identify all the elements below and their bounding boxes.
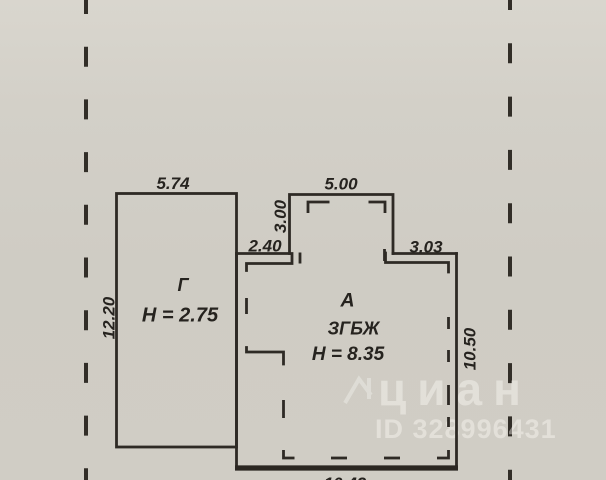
svg-text:10.50: 10.50	[461, 327, 480, 370]
svg-text:12.20: 12.20	[100, 296, 119, 339]
svg-text:ЗГБЖ: ЗГБЖ	[328, 319, 381, 339]
svg-text:ID 328996431: ID 328996431	[375, 414, 557, 444]
svg-text:2.40: 2.40	[247, 237, 282, 256]
svg-text:циан: циан	[378, 363, 532, 415]
svg-text:Н = 8.35: Н = 8.35	[312, 344, 385, 365]
svg-text:Г: Г	[177, 275, 189, 295]
svg-text:А: А	[339, 290, 354, 312]
svg-text:Н = 2.75: Н = 2.75	[142, 305, 219, 327]
svg-text:10.43: 10.43	[324, 474, 367, 480]
svg-text:5.00: 5.00	[324, 175, 358, 194]
svg-text:5.74: 5.74	[156, 174, 190, 193]
svg-text:3.00: 3.00	[271, 199, 290, 233]
svg-text:3.03: 3.03	[409, 238, 443, 257]
